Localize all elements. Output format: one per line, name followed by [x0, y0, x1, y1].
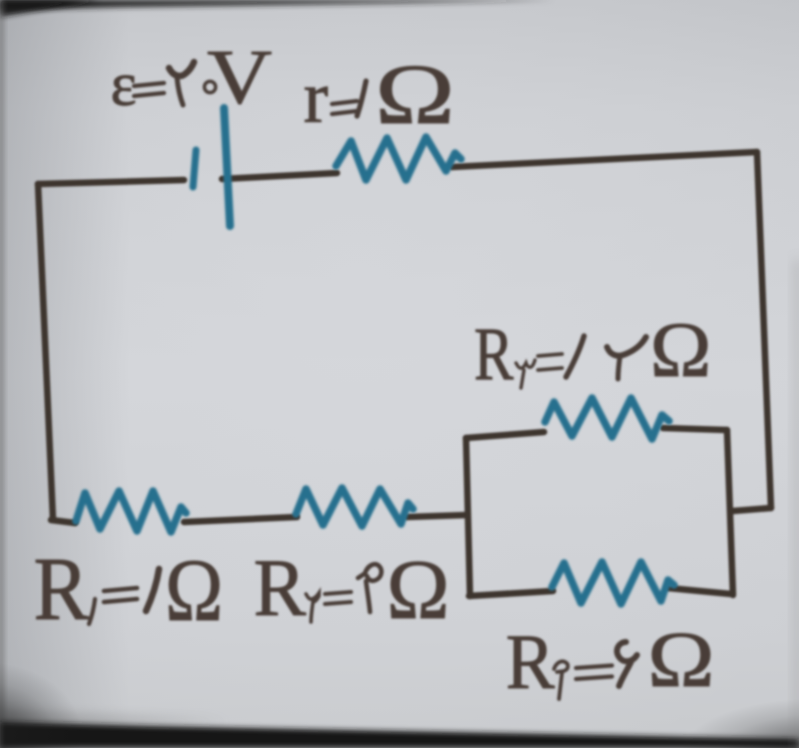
wire left vertical — [38, 184, 53, 520]
digit 4 (Persian) of R2 value — [358, 564, 381, 612]
equals of R2 label — [325, 592, 351, 604]
left edge seam — [0, 0, 4, 748]
equals of r label — [332, 101, 357, 114]
resistor R2 zigzag — [296, 488, 413, 526]
right edge lower shading — [794, 260, 799, 748]
svg-text:R: R — [34, 539, 90, 639]
wire battery to r — [222, 173, 337, 179]
wire box right vertical — [727, 430, 733, 595]
bottom-left corner shadow — [0, 662, 82, 748]
equals of R1 label — [104, 588, 137, 602]
resistor R1 zigzag — [76, 491, 186, 532]
bottom-right corner shadow — [678, 698, 799, 748]
subscript 1 (Persian) of R1 — [89, 599, 95, 624]
subscript 4 (Persian) of R4 — [554, 661, 568, 699]
svg-text:Ω: Ω — [650, 307, 711, 393]
battery short bar — [193, 150, 196, 187]
svg-text:Ω: Ω — [387, 543, 450, 637]
svg-text:R: R — [254, 543, 307, 634]
subscript 3 (Persian) of R3 — [516, 360, 535, 388]
wire top-left horizontal — [38, 180, 184, 184]
equals of R4 label — [576, 666, 612, 680]
wire R2 to box — [407, 515, 467, 517]
wire box bottom-left stub — [469, 591, 553, 596]
top dark photo edge band — [0, 0, 555, 10]
wire box top-left stub — [466, 432, 544, 438]
resistor R3 zigzag — [545, 398, 669, 439]
svg-text:Ω: Ω — [165, 541, 223, 640]
wire bottom-left stub — [51, 520, 75, 523]
digit 1 (Persian) of R1 value — [146, 569, 159, 611]
wire box left vertical — [466, 438, 470, 596]
top-left corner shadow — [0, 0, 100, 17]
wire r to top-right corner — [452, 152, 757, 167]
svg-text:V: V — [207, 35, 272, 120]
wire box bottom-right stub — [668, 588, 731, 594]
svg-text:r: r — [304, 57, 329, 139]
svg-text:R: R — [506, 620, 555, 706]
digit 0 (Persian) of 20 — [204, 81, 215, 92]
bottom dark photo edge band — [0, 712, 230, 726]
wire right vertical — [757, 152, 771, 508]
equals of R3 label — [538, 354, 562, 370]
wire R1 to R2 — [184, 517, 297, 522]
svg-text:Ω: Ω — [375, 47, 455, 142]
digit 2 (Persian) of 20 — [169, 62, 194, 76]
subscript 2 (Persian) of R2 — [306, 593, 319, 622]
svg-text:R: R — [474, 312, 514, 395]
digit 1 (Persian) of 12 — [566, 336, 584, 377]
battery long bar — [224, 108, 230, 226]
wire box top-right stub — [663, 428, 727, 430]
digit 1 (Persian) of r value — [357, 81, 366, 116]
digit 2 (Persian) of 12 — [607, 337, 646, 356]
digit 6 (Persian) of R4 value — [617, 642, 637, 686]
svg-text:Ω: Ω — [648, 616, 715, 704]
resistor r zigzag — [336, 137, 461, 180]
equals of emf label — [134, 83, 164, 96]
wire junction connector — [733, 508, 771, 511]
resistor R4 zigzag — [552, 562, 674, 604]
